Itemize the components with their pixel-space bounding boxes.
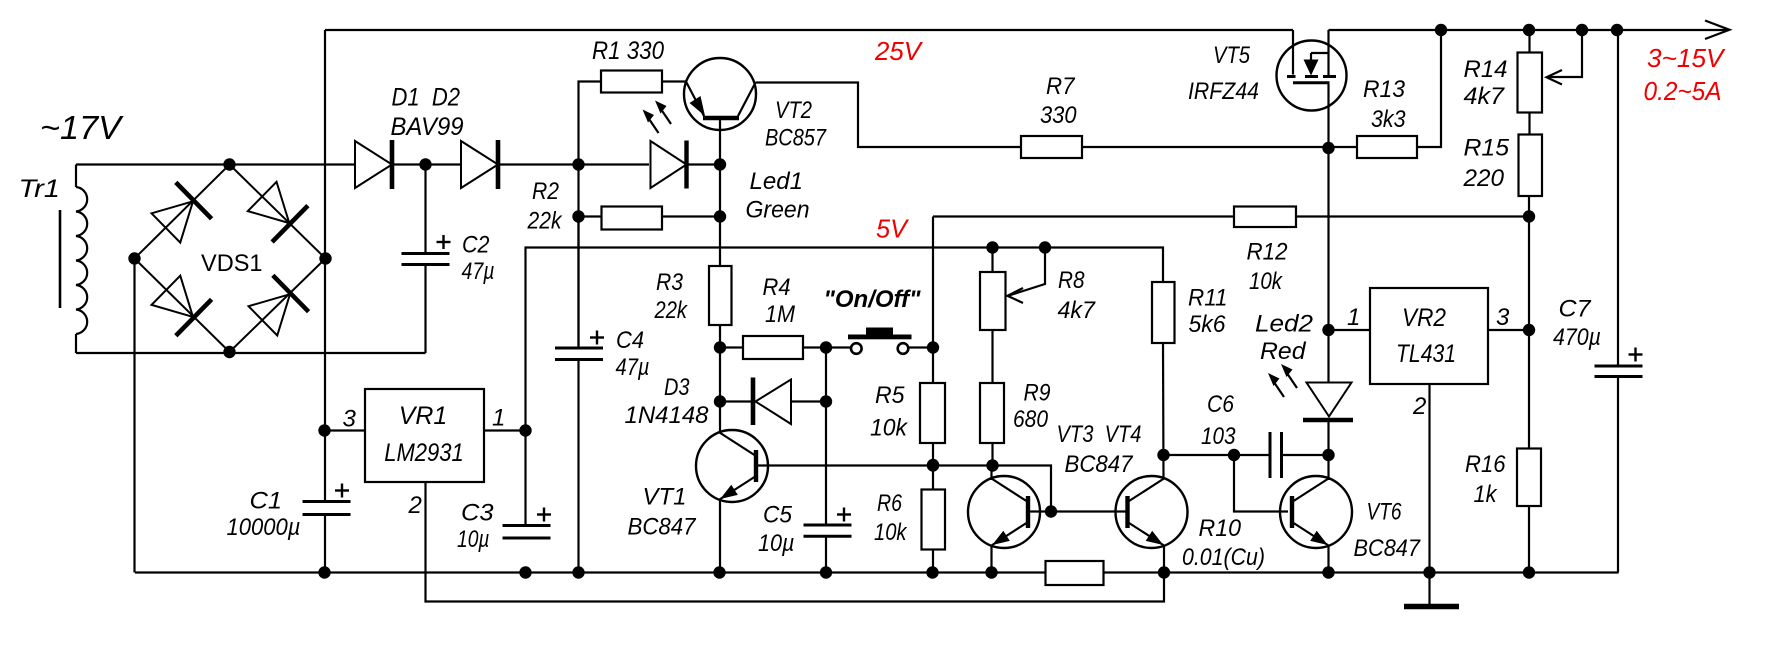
svg-text:3k3: 3k3 (1371, 106, 1406, 133)
wire R9 bottom (991, 443, 993, 466)
wire VT1 base row (758, 466, 1052, 512)
svg-text:10k: 10k (1249, 268, 1284, 295)
capacitor C7 (1595, 365, 1643, 368)
node bridge right (319, 252, 331, 264)
svg-text:C5: C5 (763, 502, 793, 529)
wire R6 bottom (932, 550, 934, 573)
svg-text:Green: Green (746, 197, 810, 224)
capacitor C2 (402, 252, 450, 255)
R8 wiper (1039, 241, 1051, 253)
wire switch to x933 (909, 346, 934, 348)
bridge diode bottom-right (245, 275, 309, 339)
Led2 emission arrows (1273, 380, 1285, 397)
wire VT4 emitter (1163, 546, 1165, 573)
node gnd C5 (820, 566, 832, 578)
node C7 top (1611, 24, 1623, 36)
wire R11 to VT4 (1162, 343, 1165, 479)
wire left rail x=325 lower (324, 515, 326, 573)
wire C6 row (1164, 454, 1269, 456)
svg-text:BC847: BC847 (1354, 535, 1422, 562)
wire VR2 pin1 (1329, 329, 1371, 331)
wire R1 left riser (579, 82, 602, 349)
svg-text:VT3 VT4: VT3 VT4 (1057, 421, 1142, 448)
transistor VT5 (MOSFET) (1277, 41, 1347, 111)
wire transformer bottom (76, 352, 426, 354)
svg-text:3~15V: 3~15V (1647, 43, 1726, 73)
node main-R1 junction (572, 158, 584, 170)
node gnd VT1 (713, 566, 725, 578)
wire transformer top (76, 163, 355, 165)
node C6 row left (1157, 449, 1169, 461)
svg-text:VDS1: VDS1 (201, 250, 263, 277)
node gate junction (1322, 142, 1334, 154)
svg-text:47µ: 47µ (462, 258, 495, 285)
svg-text:R14: R14 (1464, 56, 1508, 83)
svg-text:10000µ: 10000µ (227, 514, 301, 541)
svg-text:1: 1 (1347, 304, 1360, 331)
transistor VT6 (1280, 476, 1352, 548)
node VT3-VT4 base link (1045, 505, 1057, 517)
svg-text:Led2: Led2 (1255, 311, 1313, 338)
plus C3 (537, 513, 551, 515)
wire C2 bottom lead (424, 265, 426, 354)
node R8 top (986, 241, 998, 253)
node bridge top (223, 158, 235, 170)
svg-text:22k: 22k (527, 208, 564, 235)
svg-text:R3: R3 (656, 269, 684, 296)
wire VT1 emitter (719, 500, 721, 573)
wire C2 top lead (424, 165, 426, 254)
wire ground bus right of R10 (1103, 571, 1619, 573)
svg-text:D1 D2: D1 D2 (392, 84, 461, 112)
capacitor C1 (303, 500, 351, 503)
resistor R11 (1152, 282, 1175, 343)
node VT6 base tap (1228, 449, 1240, 461)
node R5-R6 (927, 459, 939, 471)
svg-text:VT5: VT5 (1213, 42, 1251, 69)
wire C7 top lead (1617, 30, 1619, 366)
plus C1 (335, 489, 349, 491)
resistor R7 (1021, 136, 1082, 158)
svg-text:D3: D3 (664, 374, 690, 401)
resistor R4 (743, 336, 803, 359)
transformer core (59, 210, 62, 308)
wire R12 row right (1296, 215, 1529, 217)
wire left rail x=325 upper (324, 30, 326, 502)
svg-text:R15: R15 (1464, 135, 1510, 162)
svg-text:R8: R8 (1058, 267, 1085, 294)
svg-text:VT6: VT6 (1367, 499, 1403, 526)
wire R13 right riser (1417, 30, 1441, 147)
node R14 top (1523, 24, 1535, 36)
R14 wiper (1576, 24, 1588, 36)
svg-text:R11: R11 (1188, 285, 1228, 312)
svg-text:VT1: VT1 (643, 484, 687, 511)
svg-text:BAV99: BAV99 (391, 113, 464, 141)
svg-text:Led1: Led1 (750, 168, 804, 195)
wire left-node to ground bus (133, 259, 135, 573)
wire VT2 base column (719, 165, 721, 267)
svg-text:10k: 10k (870, 415, 909, 442)
wire R12 row left (933, 215, 1234, 217)
resistor R10 (1046, 561, 1104, 585)
wire VT3 base to VT4 base (1030, 510, 1126, 512)
node gnd R6 (926, 566, 938, 578)
svg-text:IRFZ44: IRFZ44 (1188, 78, 1259, 105)
Led1 emission arrows (647, 116, 659, 133)
wire lower return bus (426, 482, 1165, 602)
svg-text:C6: C6 (1207, 391, 1235, 418)
wire R8 top lead (991, 248, 993, 273)
node gnd R16 (1523, 566, 1535, 578)
diode D2 (461, 141, 498, 188)
wire R2 right stub (662, 215, 720, 217)
node R12-R15 (1523, 210, 1535, 222)
IC VR1 box (365, 389, 484, 482)
capacitor C4 (555, 347, 603, 350)
node VR1 pin1 (519, 424, 531, 436)
svg-text:R10: R10 (1199, 515, 1242, 542)
svg-text:10k: 10k (874, 519, 908, 546)
svg-text:VR2: VR2 (1402, 304, 1446, 332)
resistor R3 (709, 266, 732, 325)
node Led1-VT2 junction (714, 158, 726, 170)
svg-text:R4: R4 (763, 274, 791, 301)
wire 5V bus (526, 248, 1164, 526)
bridge VDS1 diamond (135, 165, 326, 353)
transistor VT4 (1116, 476, 1188, 548)
node R2 left (572, 210, 584, 222)
bridge diode bottom-left (148, 272, 212, 336)
svg-text:R9: R9 (1024, 380, 1051, 407)
svg-text:220: 220 (1462, 165, 1504, 192)
resistor R15 (1519, 135, 1543, 197)
svg-text:0.2~5A: 0.2~5A (1644, 76, 1722, 106)
LED Led2 (1307, 383, 1352, 417)
svg-text:470µ: 470µ (1553, 324, 1601, 351)
resistor R12 (1234, 207, 1296, 228)
node gnd VT3 (985, 566, 997, 578)
node bridge left (128, 252, 140, 264)
svg-text:Tr1: Tr1 (19, 175, 61, 203)
wire VR1 pin3 (325, 429, 365, 431)
wire x826 column (825, 348, 827, 526)
svg-text:4k7: 4k7 (1058, 297, 1097, 324)
resistor R6 (922, 490, 946, 550)
svg-text:22k: 22k (654, 297, 689, 324)
svg-text:2: 2 (408, 492, 422, 519)
wire VR2 pin2 (1428, 384, 1430, 573)
bridge diode top-right (244, 178, 308, 242)
output arrow (1705, 21, 1730, 40)
wire R8-R9 (991, 330, 993, 385)
node VT1 base row x933 (927, 459, 939, 471)
wire VT6 emitter (1327, 546, 1329, 573)
svg-text:Red: Red (1260, 338, 1306, 365)
svg-text:25V: 25V (874, 36, 924, 66)
resistor R16 (1517, 449, 1541, 507)
svg-text:~17V: ~17V (40, 109, 124, 146)
wire C4 bottom (577, 360, 579, 573)
svg-text:R2: R2 (532, 178, 559, 205)
wire VT3 collector stub (990, 466, 992, 481)
node R4-switch (820, 341, 832, 353)
wire R2 left stub (579, 215, 602, 217)
svg-text:680: 680 (1013, 406, 1049, 433)
wire R16 bottom (1528, 506, 1530, 573)
wire R3 to D3 node (719, 325, 721, 433)
node R10 right (1158, 566, 1170, 578)
svg-text:5V: 5V (876, 214, 910, 244)
svg-text:10µ: 10µ (758, 530, 795, 557)
diode D3 (751, 378, 756, 426)
resistor R1 (601, 71, 662, 93)
diode D1 (355, 141, 392, 188)
svg-text:1N4148: 1N4148 (625, 402, 710, 429)
svg-text:LM2931: LM2931 (384, 439, 464, 467)
wire VT2 collector to R7 (756, 83, 1022, 148)
svg-text:C2: C2 (462, 232, 490, 259)
svg-text:R6: R6 (877, 490, 903, 517)
node D3 right (820, 395, 832, 407)
svg-text:103: 103 (1201, 423, 1236, 450)
node bridge bottom (223, 346, 235, 358)
wire C5 bottom (825, 536, 827, 572)
resistor R14 (pot) (1518, 53, 1543, 113)
wire x933 upper (932, 217, 934, 384)
node R3-R4 (714, 341, 726, 353)
svg-text:R1 330: R1 330 (592, 37, 664, 65)
node R13 top (1435, 24, 1447, 36)
node gnd C1 (318, 566, 330, 578)
node D1 D2 junction (419, 158, 431, 170)
wire top 25V bus (left part) (325, 29, 1293, 31)
node C6 right (1322, 449, 1334, 461)
svg-text:C1: C1 (250, 488, 283, 515)
node gnd C3 (519, 566, 531, 578)
transformer Tr1 coil (75, 165, 77, 188)
capacitor C6 (1269, 432, 1272, 478)
node R9 bottom (986, 459, 998, 471)
svg-text:R7: R7 (1046, 73, 1076, 100)
switch On/Off (866, 328, 893, 335)
wire R4 left stub (720, 346, 743, 348)
wire Led1 to VT2 base (687, 163, 721, 165)
svg-text:R12: R12 (1247, 239, 1288, 266)
resistor R2 (602, 207, 663, 230)
wire gate row R7-R13 (1082, 146, 1357, 148)
transistor VT2 (684, 58, 756, 130)
svg-text:C4: C4 (616, 327, 644, 354)
svg-text:2: 2 (1412, 393, 1426, 420)
node gnd C4 (572, 566, 584, 578)
svg-text:5k6: 5k6 (1189, 311, 1227, 338)
bridge diode top-left (148, 182, 212, 246)
svg-text:0.01(Cu): 0.01(Cu) (1182, 544, 1265, 571)
node VR1 pin3 (318, 424, 330, 436)
svg-text:R13: R13 (1363, 76, 1406, 103)
resistor R13 (1357, 136, 1417, 158)
wire VR2 pin3 (1488, 329, 1529, 331)
wire x578 mid (577, 217, 579, 347)
capacitor C3 (503, 524, 551, 527)
wire top output bus (right of VT5) (1329, 29, 1730, 31)
svg-text:"On/Off": "On/Off" (824, 286, 922, 313)
svg-text:VT2: VT2 (775, 97, 812, 124)
plus C2 (437, 241, 451, 243)
wire R14-R15 (1528, 113, 1530, 135)
wire R15 bottom (1528, 196, 1530, 330)
wire D1-D2 (392, 163, 461, 165)
svg-text:1: 1 (492, 405, 505, 432)
node Led2 top (1322, 324, 1334, 336)
svg-text:BC857: BC857 (765, 125, 827, 152)
wire R1 to VT2 (662, 80, 687, 82)
svg-text:C3: C3 (461, 500, 494, 527)
ground symbol (1428, 573, 1430, 605)
wire gate column (1327, 148, 1329, 383)
transistor VT1 (696, 430, 768, 502)
svg-text:1k: 1k (1474, 481, 1499, 508)
node switch right (927, 341, 939, 353)
svg-text:1M: 1M (765, 301, 795, 328)
capacitor C5 (804, 524, 852, 527)
svg-text:3: 3 (343, 406, 357, 433)
plus C5 (837, 513, 851, 515)
svg-text:47µ: 47µ (616, 354, 650, 381)
svg-text:R5: R5 (875, 382, 905, 409)
plus C7 (1629, 353, 1643, 355)
node D3 left (714, 395, 726, 407)
svg-text:TL431: TL431 (1396, 340, 1456, 368)
wire C7 bottom lead (1617, 377, 1619, 573)
svg-text:C7: C7 (1559, 296, 1593, 323)
wire D2 to R-node (498, 163, 649, 165)
LED Led1 (651, 141, 687, 188)
svg-text:10µ: 10µ (457, 526, 490, 553)
wire VT6 base path (1234, 455, 1288, 512)
wire R14 top lead (1528, 30, 1530, 53)
svg-text:330: 330 (1040, 102, 1077, 129)
wire x1529 to R16 (1528, 330, 1530, 449)
transistor VT3 (968, 476, 1040, 548)
svg-text:3: 3 (1496, 304, 1510, 331)
node R2 right (714, 210, 726, 222)
resistor R5 (920, 383, 945, 443)
wire VR1 pin1 (484, 429, 526, 431)
wire C6 right (1282, 454, 1329, 456)
node gnd VR2 (1423, 566, 1435, 578)
IC VR2 box (1370, 288, 1488, 384)
plus C4 (590, 336, 604, 338)
wire VT6 collector stub (1327, 455, 1329, 480)
node gnd VT6 (1322, 566, 1334, 578)
resistor R8 (trimmer) (980, 272, 1006, 330)
svg-text:VR1: VR1 (399, 402, 448, 430)
node VR2 pin3 (1523, 324, 1535, 336)
svg-text:BC847: BC847 (1065, 451, 1135, 478)
svg-text:BC847: BC847 (628, 514, 698, 541)
svg-text:4k7: 4k7 (1464, 83, 1506, 110)
wire R4 to switch (803, 346, 851, 348)
resistor R9 (980, 383, 1004, 443)
wire ground bus left of R10 (135, 571, 1046, 573)
wire R5-R6 (932, 443, 934, 490)
wire VT3 emitter (990, 546, 992, 573)
svg-text:R16: R16 (1465, 451, 1506, 478)
